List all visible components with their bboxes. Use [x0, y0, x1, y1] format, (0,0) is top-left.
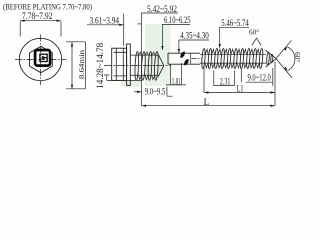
head top view centerlines [15, 59, 67, 61]
dim 7.78~7.92 extension lines [20, 21, 61, 37]
svg-text:9.0~12.0: 9.0~12.0 [248, 72, 272, 82]
svg-text:8.64min: 8.64min [78, 49, 86, 79]
hex head side view [112, 48, 127, 80]
thread root lines right [200, 54, 266, 63]
svg-text:5.46~5.74: 5.46~5.74 [221, 18, 249, 28]
thread angle caret [252, 38, 261, 45]
svg-text:14.28~14.78: 14.28~14.78 [95, 42, 105, 89]
hex facet lines [114, 52, 127, 76]
swage mark upper teardrop [179, 51, 186, 59]
dim 7.78~7.92 line [20, 20, 61, 22]
right screw centerline [192, 58, 202, 60]
middle screw centerline [104, 65, 171, 67]
middle threads coil [134, 51, 139, 80]
square recess inner square [40, 54, 47, 61]
green patch under middle screw head [121, 81, 141, 87]
washer flange [127, 44, 131, 85]
hex bottom extension to datum [104, 75, 142, 80]
right threads coil [201, 48, 205, 68]
point cone threads [266, 52, 269, 65]
head outer circle [19, 38, 61, 80]
dim 8.64min [71, 42, 73, 89]
shank section line [190, 53, 192, 64]
green highlight band [145, 24, 171, 86]
svg-text:9.0~9.5: 9.0~9.5 [145, 87, 166, 97]
screw point cone [266, 50, 277, 67]
svg-text:2.31: 2.31 [220, 77, 231, 87]
hexagon [30, 46, 53, 72]
thread root lines [130, 55, 157, 75]
hex edge verticals [116, 48, 123, 80]
middle screw tip [158, 55, 163, 77]
recess center dot [42, 56, 45, 59]
square recess outer bold [35, 50, 50, 66]
svg-text:L1: L1 [237, 83, 244, 93]
recess tick [44, 57, 47, 59]
svg-text:3.61~3.94: 3.61~3.94 [90, 16, 120, 26]
small tick on datum near y24 [138, 23, 142, 25]
svg-text:7.78~7.92: 7.78~7.92 [22, 11, 53, 21]
svg-text:4.35~4.30: 4.35~4.30 [180, 30, 209, 40]
svg-text:6.10~6.25: 6.10~6.25 [164, 15, 191, 25]
svg-text:60°: 60° [293, 52, 300, 62]
point angle lines [276, 40, 292, 78]
swage mark lower teardrop [183, 58, 190, 66]
svg-text:(BEFORE PLATING 7.70~7.80): (BEFORE PLATING 7.70~7.80) [3, 1, 92, 11]
point angle arc [287, 47, 295, 71]
right screw shank [168, 53, 200, 64]
svg-text:60°: 60° [249, 29, 259, 37]
